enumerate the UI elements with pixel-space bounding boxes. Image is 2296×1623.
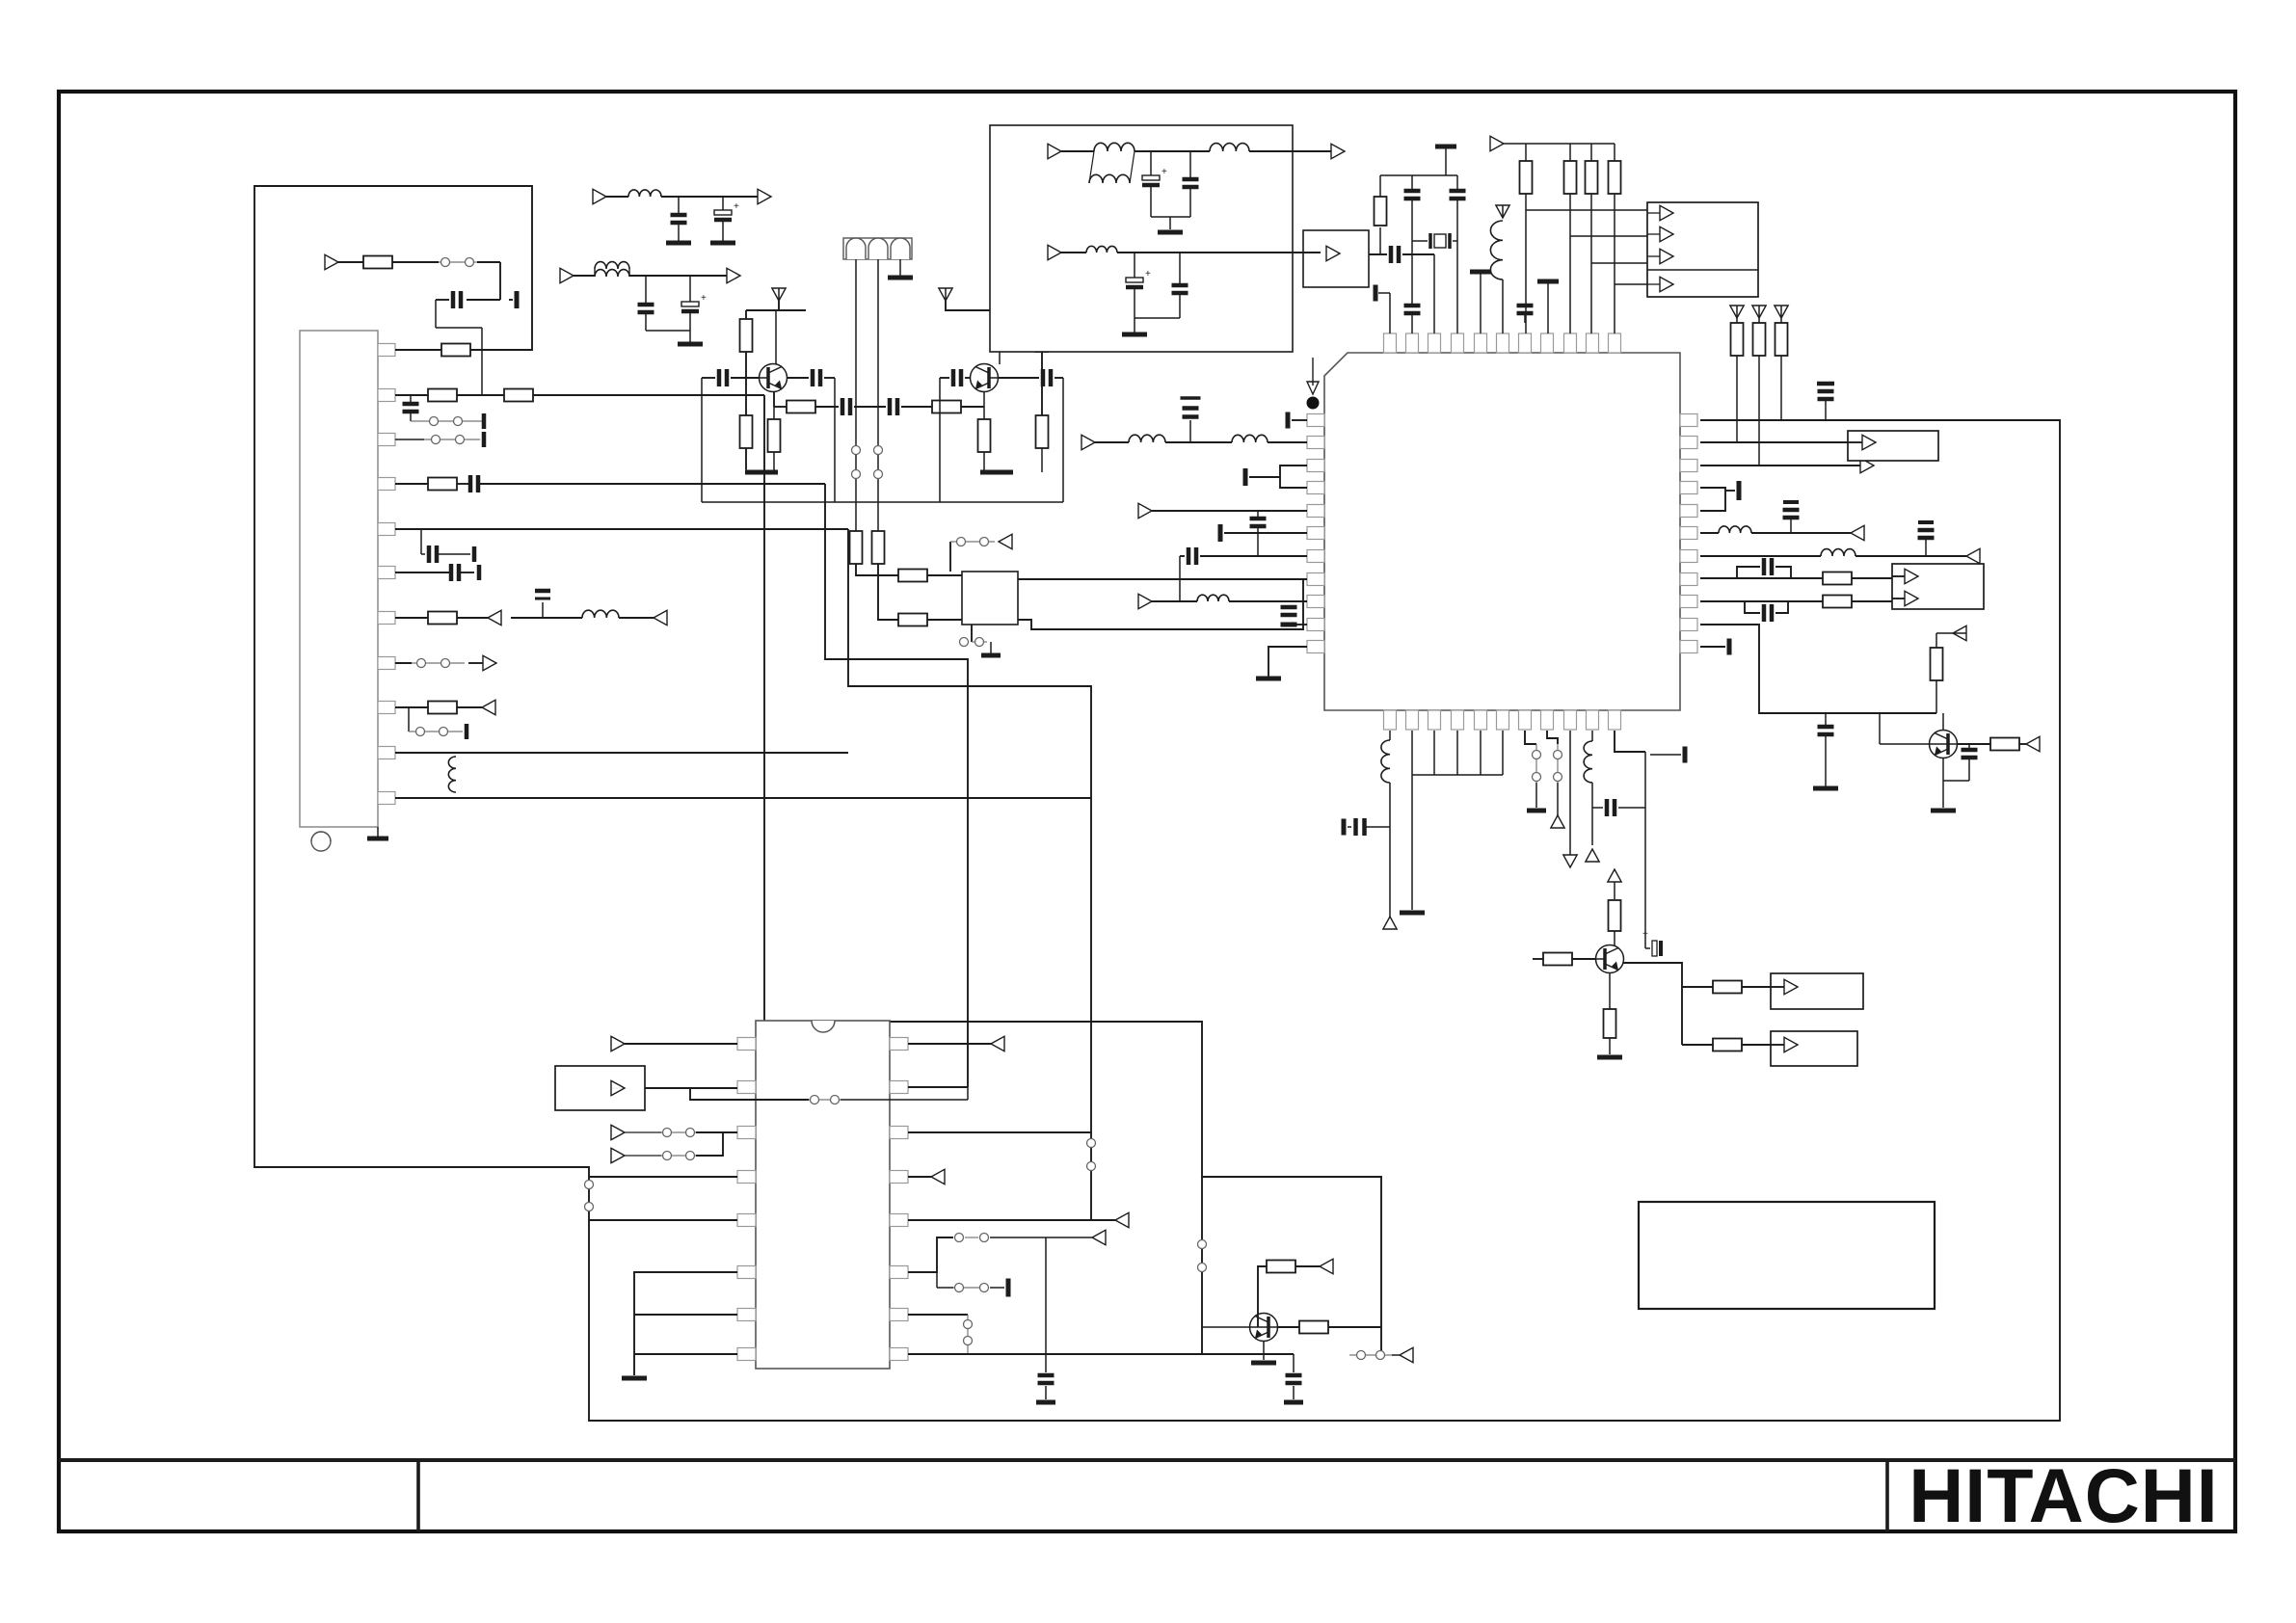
arrow A10 (L2 in) <box>1081 435 1095 449</box>
U1 pin B3 <box>1428 710 1441 730</box>
resistor R23 <box>1758 318 1760 323</box>
capacitor C14 (electrolytic) <box>722 197 724 210</box>
jumper J10 (saw top) <box>949 542 951 572</box>
transistor Q4 <box>1250 1314 1278 1342</box>
wire varicap1b <box>856 564 898 575</box>
arrow A31 (down) <box>1563 855 1577 867</box>
capacitor C16 (electrolytic) <box>689 276 691 302</box>
jumper J7 <box>874 446 883 455</box>
capacitor C34 (R9 bypass) <box>1745 601 1760 613</box>
wire p5r <box>908 1219 1115 1221</box>
U1 pin T6 <box>1497 333 1509 353</box>
capacitor C7b plate <box>477 565 482 580</box>
U1 pin T10 <box>1587 333 1599 353</box>
box B2 <box>1892 564 1984 609</box>
ground G13 <box>1535 783 1537 808</box>
wire bus gnd <box>1411 775 1413 910</box>
jumper J14 <box>809 1099 841 1101</box>
capacitor C27 plate (L6) <box>1224 532 1307 534</box>
svg-text:+: + <box>701 293 707 304</box>
arrow A22 <box>1660 226 1673 241</box>
U1 pin T7 <box>1519 333 1532 353</box>
resistor R22 <box>1736 318 1738 323</box>
U1 pin L1 <box>1307 414 1324 427</box>
wire varicap2b <box>878 564 898 620</box>
title block divider 2 (logo cell) <box>1885 1460 1889 1531</box>
wire q1 baseline <box>701 378 703 502</box>
U1 pin L3 <box>1307 460 1324 472</box>
arrow A13 <box>1860 458 1874 472</box>
U1 pin L9 <box>1307 596 1324 608</box>
U1 pin R2 <box>1680 437 1697 449</box>
resistor R30 <box>1614 882 1615 899</box>
U1 pin R6 <box>1680 527 1697 540</box>
resistor R31 (base) <box>1533 958 1543 960</box>
wire R10 rail <box>1700 625 1936 713</box>
resistor R4 (pin4 row) <box>395 483 428 485</box>
resistor R24 <box>1780 318 1782 323</box>
jumper J20 <box>1349 1354 1392 1356</box>
supply arrow V1 <box>772 288 786 301</box>
wire R27 branch <box>1570 235 1647 237</box>
supply arrow V4 <box>1752 306 1766 318</box>
capacitor C21 (Q2 out) <box>965 377 971 379</box>
capacitor C44 (electrolytic) <box>1150 151 1152 175</box>
supply arrow V6 <box>1496 205 1509 218</box>
wire p2 branch <box>690 1088 809 1100</box>
capacitor C45 <box>1189 151 1191 177</box>
U1 pin B5 <box>1475 710 1487 730</box>
U1 pin R10 <box>1680 619 1697 631</box>
wire q3 base <box>1880 743 1930 745</box>
ground G7 <box>990 642 992 653</box>
capacitor C25 plate <box>1249 476 1280 478</box>
wire p1r <box>908 1043 991 1045</box>
resistor R9 <box>898 570 927 582</box>
svg-text:+: + <box>1642 929 1648 940</box>
box B5 <box>1771 973 1863 1009</box>
arrow A34 <box>1784 979 1798 994</box>
resistor R35 <box>1936 632 1966 634</box>
U1 pin L6 <box>1307 527 1324 540</box>
wire R3 row <box>1700 465 1861 466</box>
ground G14 <box>1597 1055 1622 1060</box>
inductor L14 (B1) <box>1389 731 1391 740</box>
capacitor C13 <box>678 197 680 213</box>
U1 pin R11 <box>1680 641 1697 653</box>
wire L11 <box>1268 647 1307 677</box>
resistor R3 <box>457 394 504 396</box>
tuner pin 10 <box>378 747 395 759</box>
crystal X2 <box>1433 254 1435 333</box>
wire q3 emitter <box>1942 758 1944 808</box>
U1 pin B6 <box>1497 710 1509 730</box>
arrow A15 <box>1966 548 1980 563</box>
resistor R38 <box>1258 1266 1267 1327</box>
arrow A1 <box>488 610 501 625</box>
capacitor C53 <box>1045 1237 1047 1372</box>
U1 pin1 dot <box>1307 397 1320 410</box>
resistor R34 <box>1682 1044 1713 1046</box>
arrow A21 <box>1660 205 1673 220</box>
capacitor C24 <box>1189 420 1191 442</box>
inductor L3 <box>606 196 628 198</box>
U1 pin B2 <box>1406 710 1419 730</box>
U2 pin L4 <box>737 1171 756 1184</box>
svg-text:+: + <box>1145 269 1151 279</box>
U2 pin L7 <box>737 1309 756 1321</box>
supply arrow V5 <box>1775 306 1788 318</box>
ground G2 <box>710 241 735 246</box>
U1 pin T3 <box>1428 333 1441 353</box>
U1 pin T9 <box>1564 333 1577 353</box>
capacitor C30 plate <box>1725 490 1735 492</box>
ground G10 <box>1158 230 1183 235</box>
wire q4 box <box>1202 1177 1381 1355</box>
inductor L10 <box>1490 221 1503 279</box>
arrow A20 <box>1490 136 1504 150</box>
U1 pin B4 <box>1452 710 1464 730</box>
wire b8 gnd1 <box>1151 216 1190 218</box>
U1 pin B8 <box>1541 710 1554 730</box>
ground G6 <box>980 470 1013 475</box>
jumper J18 <box>936 1272 938 1288</box>
svg-text:+: + <box>734 201 739 212</box>
inductor L4 (dual choke) <box>574 275 595 277</box>
capacitor C38 <box>1369 253 1387 255</box>
jumper J17 <box>955 1234 964 1242</box>
wire trunk T1 <box>764 395 1202 1354</box>
arrow A23 <box>1660 249 1673 263</box>
inductor L13 <box>1061 252 1086 253</box>
capacitor C15 <box>645 276 647 303</box>
ground G15 <box>1931 809 1956 813</box>
capacitor C4 <box>457 483 468 485</box>
transistor Q5 <box>1596 945 1624 973</box>
jumper J-loop <box>585 1181 594 1189</box>
U1 pin T8 <box>1541 333 1554 353</box>
capacitor C17 (Q1 base) <box>702 377 715 379</box>
U1 pin R8 <box>1680 573 1697 586</box>
wire q5 out <box>1623 963 1682 1045</box>
arrow A3 <box>482 700 495 714</box>
U1 pin T2 <box>1406 333 1419 353</box>
U1 pin L11 <box>1307 641 1324 653</box>
capacitor C35 <box>1825 713 1827 725</box>
wire B11 <box>1615 731 1645 752</box>
U1 pin L2 <box>1307 437 1324 449</box>
ground G4 <box>888 276 913 280</box>
U1 pin R5 <box>1680 505 1697 518</box>
ground G9 <box>1813 786 1838 791</box>
wire osc down1 <box>1411 241 1413 254</box>
arrow A35 <box>1784 1037 1798 1051</box>
wire p2 <box>645 1087 737 1089</box>
box B7 <box>1639 1202 1935 1309</box>
wire osc rail <box>1380 174 1457 176</box>
wire row594 <box>395 572 449 573</box>
U2 pin L1 <box>737 1038 756 1051</box>
ground G8 <box>1256 677 1281 681</box>
capacitor C31 <box>1783 500 1799 504</box>
wire p2 branch2 <box>841 1099 968 1101</box>
U1 pin L8 <box>1307 573 1324 586</box>
jumper J8 <box>1198 1240 1207 1249</box>
wire R2 row <box>1700 441 1848 443</box>
wire varicap3 <box>899 259 901 276</box>
capacitor C2 plate <box>482 413 487 429</box>
resistor R18 <box>1041 310 1043 319</box>
wire p4 <box>589 1176 737 1178</box>
capacitor C55 <box>1293 1354 1295 1372</box>
capacitor C52 <box>1968 744 1970 748</box>
supply arrow V2 <box>939 288 952 301</box>
U2 pin L2 <box>737 1081 756 1094</box>
U2 pin L6 <box>737 1266 756 1279</box>
capacitor C43 <box>1517 304 1534 308</box>
wire row828 <box>395 797 1091 799</box>
capacitor C46 (electrolytic) <box>1134 253 1135 278</box>
capacitor C26 <box>1257 511 1259 517</box>
arrow A2 <box>619 617 654 619</box>
arrow A38 (P1 in) <box>611 1036 625 1051</box>
wire mixer rail <box>702 501 1063 503</box>
arrow A7 (12V in) <box>560 268 574 282</box>
wire q3 coll <box>1942 713 1944 731</box>
resistor R19 <box>1041 378 1043 415</box>
resistor R20 <box>1700 577 1823 579</box>
wire q2 emitter <box>983 391 985 407</box>
arrow A18 <box>1905 591 1918 605</box>
wire R26 branch <box>1526 209 1647 211</box>
box B6 <box>1771 1031 1857 1066</box>
wire p3r <box>908 1131 1091 1133</box>
wire row363 <box>469 349 471 351</box>
wire L3L4 tie <box>1280 466 1307 488</box>
box B4 (connector) <box>1647 202 1758 297</box>
U2 pin R5 <box>890 1214 908 1227</box>
tuner pin 4 <box>378 478 395 491</box>
arrow A45 <box>1046 1237 1092 1238</box>
DIP IC U2 body <box>756 1021 890 1369</box>
arrow A8 <box>727 268 740 282</box>
resistor R37 <box>1277 1326 1299 1328</box>
resistor R13 <box>745 378 747 415</box>
tuner pin 2 <box>378 389 395 402</box>
transistor Q3 <box>1930 731 1958 758</box>
wire R29 branch <box>1615 283 1647 285</box>
wire q2 baseline <box>1062 378 1064 502</box>
jumper J15 <box>661 1131 696 1133</box>
capacitor C22 (Q2 base) <box>998 377 1039 379</box>
wire p3b <box>696 1132 723 1156</box>
IC U1 body <box>1324 353 1680 710</box>
tuner pin 11 <box>378 792 395 805</box>
U1 pin B1 <box>1384 710 1397 730</box>
capacitor C40 <box>1456 175 1458 189</box>
title block divider 1 <box>416 1460 420 1531</box>
jumper J3 (pin7 row) <box>395 662 412 664</box>
U1 pin T1 <box>1384 333 1397 353</box>
resistor R25 <box>1379 227 1381 254</box>
arrow A44 <box>1115 1212 1129 1227</box>
capacitor C50 plate <box>1650 754 1681 756</box>
inductor L12 <box>1210 144 1249 151</box>
arrow A17 <box>1905 569 1918 583</box>
resistor R16 <box>932 401 961 413</box>
wire q2 top <box>946 301 1042 310</box>
resistor R33 <box>1682 986 1713 988</box>
jumper J12 (B7) <box>1525 731 1536 744</box>
wire p8r <box>908 1353 1294 1355</box>
tuner block X1 <box>300 331 378 827</box>
wire p2r <box>908 1086 968 1088</box>
U1 pin1 arrow <box>1312 358 1314 386</box>
capacitor C39 <box>1411 175 1413 189</box>
resistor R11 <box>898 614 927 626</box>
resistor R1 (pin1 row) <box>395 349 441 351</box>
U2 pin R8 <box>890 1348 908 1361</box>
title block top rule <box>59 1458 2235 1462</box>
capacitor C28 (L7) <box>1200 555 1307 557</box>
supply arrow V3 <box>1730 306 1744 318</box>
capacitor C18 (Q1 out) <box>788 377 809 379</box>
capacitor C49 <box>1598 807 1603 809</box>
arrow A16 (B1 in) <box>1862 435 1876 449</box>
resistor R7 <box>363 256 392 269</box>
U1 pin T4 <box>1452 333 1464 353</box>
tuner pin 5 <box>378 523 395 536</box>
U1 pin B7 <box>1519 710 1532 730</box>
arrow A24 <box>1660 277 1673 291</box>
wire varicap1 <box>855 259 857 532</box>
box B1 <box>1848 431 1938 461</box>
capacitor C36 plate (R11) <box>1700 646 1725 648</box>
wire B9 down <box>1569 731 1571 856</box>
wire p6r <box>908 1237 953 1272</box>
box B3 <box>555 1066 645 1110</box>
wire row781 <box>395 752 848 754</box>
wire p6-p8 gnd <box>634 1272 737 1375</box>
jumper J13 (B8) <box>1547 731 1558 744</box>
wire p3 <box>696 1131 737 1133</box>
svg-text:HITACHI: HITACHI <box>1909 1452 2219 1538</box>
jumper J5 <box>392 261 439 263</box>
capacitor C54 plate <box>1006 1279 1011 1297</box>
jumper J2 (pin3 row) <box>395 439 424 440</box>
resistor R21 <box>1700 600 1823 602</box>
wire agc2 <box>499 262 501 300</box>
U1 pin L5 <box>1307 505 1324 518</box>
arrow A9 <box>999 534 1012 548</box>
U2 pin L8 <box>737 1348 756 1361</box>
ground G12 <box>1400 911 1425 916</box>
capacitor C10 plate <box>465 724 469 739</box>
jumper J4 <box>408 707 410 732</box>
wire q2 coll <box>999 310 1001 364</box>
capacitor C29 (L10) <box>1296 624 1307 625</box>
arrow A33 (up) <box>1608 869 1621 882</box>
U1 pin R1 <box>1680 414 1697 427</box>
resistor R2 <box>395 394 428 396</box>
transistor Q2 <box>971 364 999 392</box>
resistor R26 <box>1525 144 1527 161</box>
wire trunk T3 <box>848 529 1091 1220</box>
wire saw out1 <box>1018 578 1060 580</box>
resistor R15 (mixer) <box>774 406 787 408</box>
arrow A26 <box>1331 144 1345 158</box>
box B8 <box>990 125 1293 352</box>
wire agc <box>338 261 363 263</box>
arrow A32 (up) <box>1586 849 1599 862</box>
arrow A25 <box>1048 144 1061 158</box>
U1 pin R4 <box>1680 482 1697 494</box>
resistor R17 (Q2 emitter) <box>983 407 985 419</box>
U2 pin R7 <box>890 1309 908 1321</box>
tuner ground <box>377 827 379 837</box>
capacitor C42 plate <box>1374 285 1378 302</box>
arrow A46 <box>1392 1354 1400 1356</box>
resistor R5 (pin6 row) <box>395 617 428 619</box>
capacitor C47 <box>1179 253 1181 283</box>
wire R1 row <box>1700 419 2024 421</box>
wire L8 row <box>1051 578 1307 580</box>
wire row549 <box>395 528 848 530</box>
resistor R14 (emitter) <box>773 407 775 419</box>
arrow A11 (L5 in) <box>1138 503 1152 518</box>
tuner pin 9 <box>378 702 395 714</box>
svg-text:+: + <box>1161 167 1167 177</box>
inductor L1 <box>511 617 582 619</box>
U1 pin L4 <box>1307 482 1324 494</box>
wire agc3 <box>436 327 482 329</box>
arrow A27 <box>1048 245 1061 259</box>
arrow A39 <box>611 1080 625 1095</box>
ground G16 <box>622 1376 647 1381</box>
capacitor C48 <box>1348 826 1351 828</box>
U2 pin R2 <box>890 1081 908 1094</box>
wire trunk T2 <box>825 484 968 1087</box>
ground G18 <box>1284 1400 1303 1405</box>
jumper J6 <box>852 446 861 455</box>
arrow A4 (AGC in) <box>325 254 338 269</box>
U2 pin R1 <box>890 1038 908 1051</box>
U2 pin L5 <box>737 1214 756 1227</box>
inductor L9 (R7) <box>1700 555 1821 557</box>
U2 pin R6 <box>890 1266 908 1279</box>
ground G17 <box>1036 1400 1055 1405</box>
capacitor C7 <box>449 564 454 581</box>
arrow A5 (B+ in) <box>593 189 606 203</box>
inductor L2 <box>448 757 456 792</box>
U1 pin R9 <box>1680 596 1697 608</box>
capacitor C3 plate <box>482 432 487 447</box>
inductor L5 <box>1095 441 1129 443</box>
wire b2-b5 bus <box>1411 731 1413 775</box>
ground G11 <box>1122 333 1147 337</box>
capacitor C37 <box>1817 382 1834 386</box>
U2 pin R4 <box>890 1171 908 1184</box>
transistor Q1 <box>760 364 788 392</box>
inductor L7 <box>1152 600 1197 602</box>
capacitor C20 <box>888 398 893 415</box>
ground G3 <box>678 342 703 347</box>
wire p4r <box>908 1176 931 1178</box>
wire R4R5 tie <box>1700 488 1725 511</box>
wire vert1707 <box>1644 752 1646 948</box>
U1 pin B10 <box>1587 710 1599 730</box>
inductor L11 (dual choke) <box>1061 150 1094 152</box>
